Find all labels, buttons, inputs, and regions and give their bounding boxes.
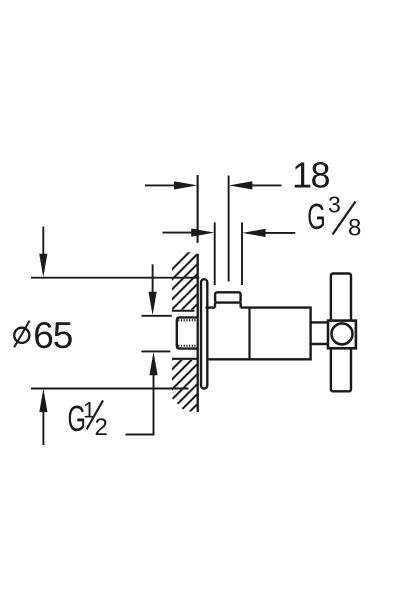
- flange (wall rosette, side view): [201, 279, 207, 388]
- handle cross bar: [331, 274, 351, 392]
- G3/8-dim left extension line: [214, 222, 216, 285]
- 18-dim right extension line (spigot axis): [228, 176, 230, 282]
- dim 18 right arrow: [229, 181, 282, 189]
- dia65 lower extension line: [31, 388, 189, 390]
- wall surface line (also 18-dim left extension): [197, 175, 199, 243]
- handle hub: [328, 321, 356, 349]
- svg-text:3: 3: [328, 192, 341, 218]
- svg-text:18: 18: [292, 155, 330, 196]
- valve stem bottom line: [311, 343, 329, 345]
- G1/2 dim upper short line: [142, 315, 172, 317]
- valve stem top line: [311, 321, 329, 323]
- label G1/2: [68, 398, 108, 442]
- wall recess bottom edge: [172, 358, 198, 360]
- G1/2 dim up arrow with leader to label: [126, 352, 158, 435]
- G1/2 dim lower short line: [141, 350, 170, 352]
- valve body top line right of spigot: [241, 306, 311, 308]
- svg-text:8: 8: [348, 215, 361, 242]
- valve body bottom line: [207, 358, 311, 360]
- dia65 bottom arrow: [39, 389, 47, 445]
- dim G3/8 right arrow: [242, 229, 295, 237]
- svg-text:65: 65: [33, 315, 73, 356]
- wall recess top edge: [172, 310, 195, 312]
- handle hub circle: [332, 323, 353, 344]
- dia65 upper extension line: [31, 277, 199, 279]
- dim G3/8 left arrow: [163, 229, 215, 237]
- G1/2 threaded inlet tail: [177, 317, 198, 348]
- wall hatch upper patch: [172, 252, 197, 310]
- label G3/8: [307, 192, 361, 242]
- G3/8 spigot neck sides: [214, 303, 216, 308]
- dim 18 left arrow: [145, 181, 197, 189]
- wall hatch lower patch: [172, 360, 197, 412]
- valve body top line left of spigot: [206, 306, 216, 308]
- label dia65: [14, 315, 73, 356]
- svg-text:2: 2: [95, 414, 108, 441]
- valve body right edge: [309, 306, 311, 360]
- G1/2 dim down arrow: [149, 264, 157, 315]
- G3/8 spigot cap: [215, 292, 241, 302]
- valve body section divider: [248, 308, 250, 360]
- G3/8-dim right extension line: [241, 222, 243, 285]
- svg-text:G: G: [307, 197, 325, 237]
- dia65 top arrow: [39, 227, 47, 278]
